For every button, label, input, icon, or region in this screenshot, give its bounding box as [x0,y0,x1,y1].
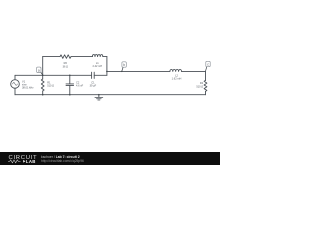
wire L2 to right corner [182,70,206,72]
svg-text:http://circuitlab.com/c/q25p96: http://circuitlab.com/c/q25p96 [41,159,84,163]
junction right branch [106,71,108,73]
watermark bar [0,152,220,165]
svg-text:2.42 mH: 2.42 mH [92,64,102,68]
wire V1 top to main rail [14,75,16,79]
junction R1 bottom [42,94,44,96]
wire right corner down [106,57,108,76]
svg-text:1.62 mH: 1.62 mH [172,77,182,81]
resistor R1 [41,75,44,94]
wire ground rail [15,94,206,96]
svg-text:510 Ω: 510 Ω [47,84,54,88]
wire C1 right to corner [94,74,107,76]
junction C2 bottom [69,94,71,96]
wire R6 to L1 [71,56,92,58]
node flag b [121,62,126,72]
inductor L2 [170,69,182,71]
wire V1 bottom to ground rail [14,88,16,94]
wire top branch left [43,56,60,58]
wire node A up to top branch [42,57,44,76]
capacitor C1 plates [92,72,95,78]
svg-text:b: b [123,63,125,67]
svg-text:a: a [38,69,40,73]
junction node A [42,75,44,77]
wire main left rail [15,74,92,76]
svg-text:LAB: LAB [26,159,36,164]
svg-text:39 µF: 39 µF [90,84,97,88]
resistor R2 [204,80,207,91]
svg-text:36 Ω: 36 Ω [63,64,69,68]
junction ground [98,94,100,96]
capacitor C2 [66,75,74,94]
ground [95,95,103,100]
svg-text:4.6 nF: 4.6 nF [76,84,84,88]
wire right net horizontal [107,70,170,72]
CircuitLab logo wordmark [8,155,37,164]
voltage source V1 [11,80,20,89]
svg-text:38.01 kHz: 38.01 kHz [22,86,34,90]
node flag a [37,67,43,75]
wire R2 bottom [205,91,207,94]
svg-text:510 Ω: 510 Ω [196,84,203,88]
inductor L1 [92,55,102,57]
wire right output corner down [205,71,207,80]
node flag c [206,61,211,71]
resistor R6 [60,55,71,59]
junction C2 top [69,75,71,77]
wire L1 to right corner [103,56,107,58]
